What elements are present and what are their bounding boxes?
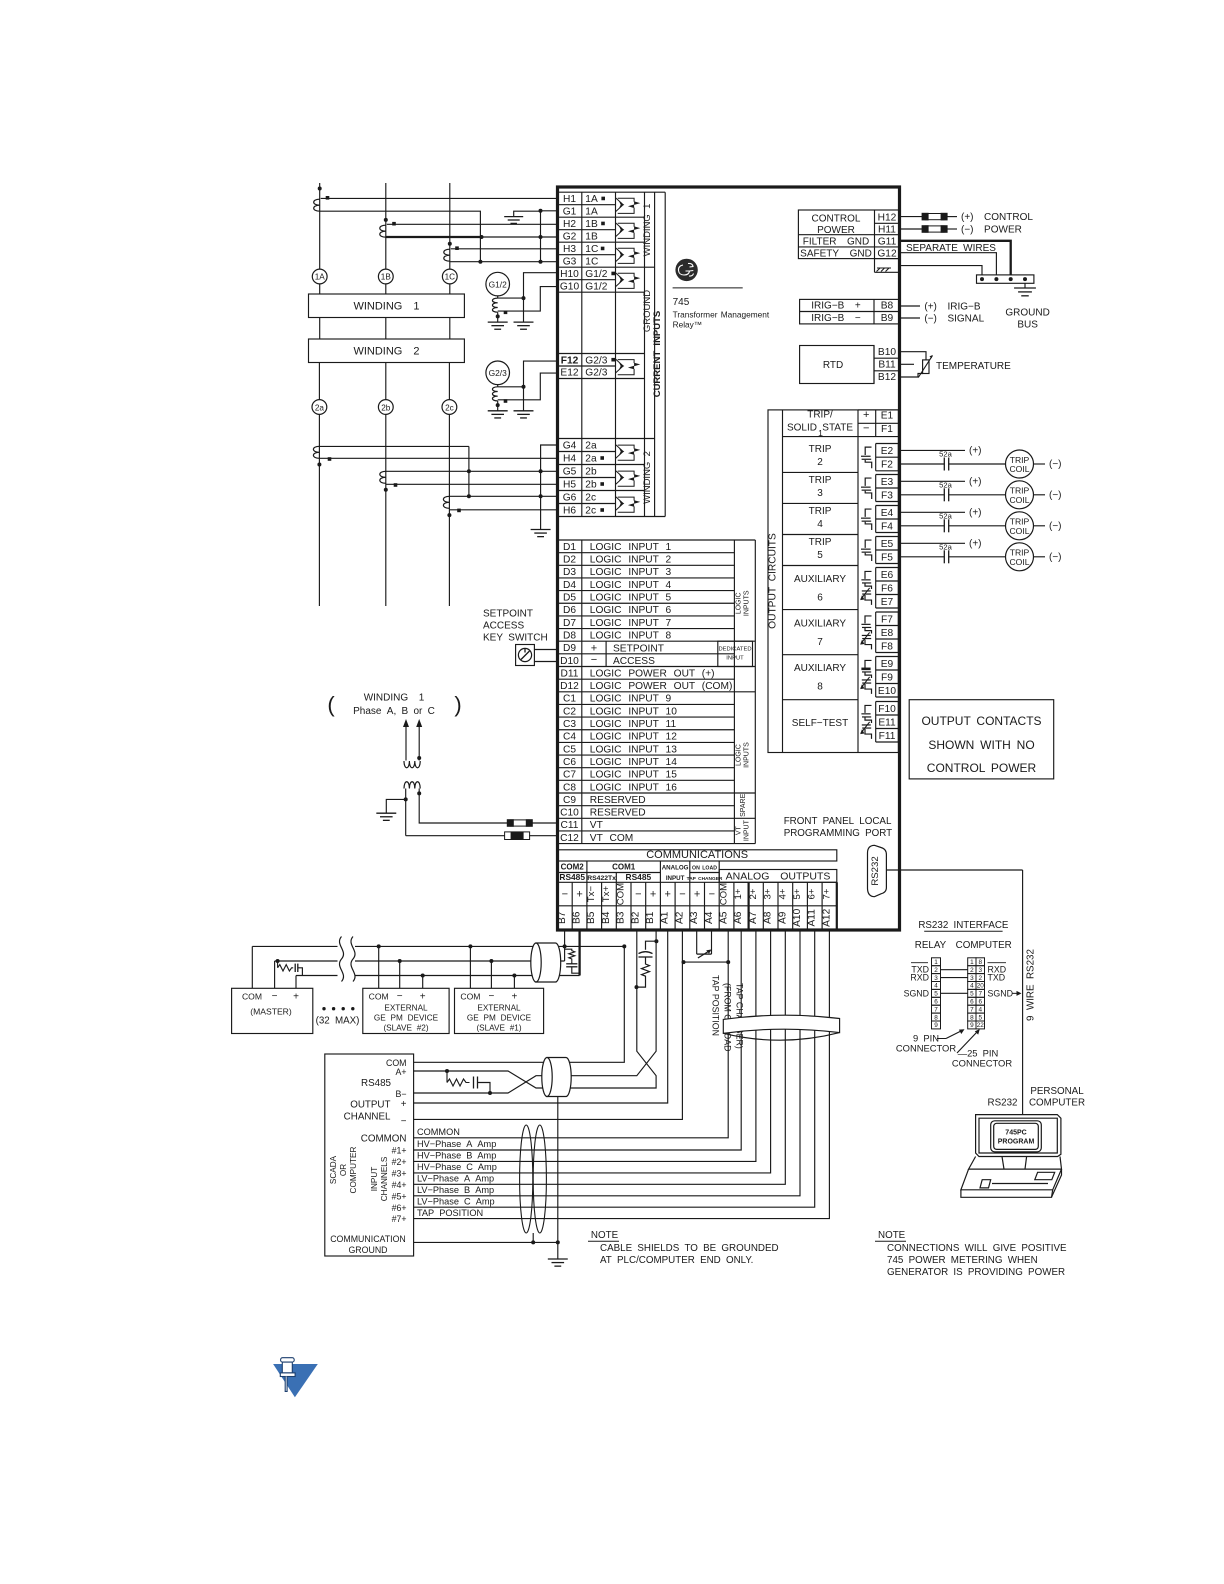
wire master minus drop — [274, 961, 276, 988]
wire CT 1A polarity to H1 — [321, 197, 558, 199]
svg-text:2: 2 — [934, 967, 938, 974]
svg-text:A1: A1 — [660, 911, 671, 924]
wire trip 5 positive — [898, 542, 965, 544]
svg-text:FRONT PANEL LOCAL: FRONT PANEL LOCAL — [784, 816, 892, 827]
irig-b table — [800, 299, 900, 324]
svg-text:7+: 7+ — [821, 888, 832, 899]
svg-text:NOTE: NOTE — [878, 1230, 906, 1241]
rs232 d-connector — [868, 845, 887, 896]
svg-text:CONTROL POWER: CONTROL POWER — [927, 761, 1037, 775]
svg-text:(FROM ONLOAD: (FROM ONLOAD — [723, 983, 733, 1051]
svg-text:+: + — [694, 889, 700, 901]
ground CT G1/2 shield drop — [523, 298, 525, 322]
svg-text:LOGIC INPUT 7: LOGIC INPUT 7 — [590, 618, 672, 629]
svg-text:5: 5 — [934, 991, 938, 998]
svg-text:G1/2: G1/2 — [585, 269, 607, 280]
svg-text:IRIG−B +: IRIG−B + — [811, 301, 861, 312]
svg-text:INPUTS: INPUTS — [744, 590, 751, 616]
ground CT G2/3 line to ground — [497, 401, 499, 411]
svg-text:C1: C1 — [563, 694, 576, 705]
svg-text:A3: A3 — [689, 911, 700, 924]
shield drain tall ellipse — [532, 1233, 534, 1242]
winding 1 box — [309, 294, 465, 318]
svg-text:G5: G5 — [563, 467, 577, 478]
phase bus 2b — [385, 414, 387, 606]
svg-text:6: 6 — [978, 999, 982, 1006]
svg-text:CHANNEL: CHANNEL — [344, 1112, 391, 1123]
jumper bus winding2 CT returns — [468, 446, 470, 496]
svg-text:(+) CONTROL: (+) CONTROL — [961, 212, 1033, 223]
svg-text:(−) POWER: (−) POWER — [961, 224, 1022, 235]
svg-text:#2+: #2+ — [392, 1157, 407, 1167]
svg-text:D6: D6 — [563, 605, 576, 616]
svg-text:D8: D8 — [563, 630, 576, 641]
svg-text:A10: A10 — [792, 908, 803, 926]
svg-text:(+) IRIG−B: (+) IRIG−B — [924, 301, 980, 312]
control power table — [798, 210, 899, 259]
svg-text:HV−Phase A Amp: HV−Phase A Amp — [417, 1139, 496, 1149]
output contacts note box — [909, 700, 1053, 779]
svg-text:WINDING 1: WINDING 1 — [364, 693, 425, 704]
svg-text:DEDICATED: DEDICATED — [718, 647, 751, 653]
svg-text:AUXILIARY: AUXILIARY — [794, 574, 846, 585]
wire CT 2a polarity to H4 — [319, 457, 557, 459]
wire slave2 minus tap — [399, 961, 401, 988]
svg-text:TAP CHANGER): TAP CHANGER) — [735, 983, 745, 1049]
vt primary lead right with arrow — [418, 723, 420, 761]
svg-text:INPUTS: INPUTS — [744, 742, 751, 768]
svg-text:TAP POSITION: TAP POSITION — [711, 975, 721, 1036]
ground symbol ground CT G1/2 left — [488, 321, 508, 323]
relay 745 main enclosure box — [558, 187, 900, 930]
svg-text:COMMUNICATION: COMMUNICATION — [330, 1234, 406, 1244]
svg-text:RS422Tx: RS422Tx — [587, 875, 616, 882]
svg-text:(−) SIGNAL: (−) SIGNAL — [924, 313, 984, 324]
label 745 Transformer Management Relay — [673, 287, 743, 289]
svg-text:AUXILIARY: AUXILIARY — [794, 663, 846, 674]
svg-text:4: 4 — [978, 1006, 982, 1013]
svg-text:1B: 1B — [585, 231, 598, 242]
wire CT 2c polarity to H6 — [449, 509, 557, 511]
svg-text:1: 1 — [970, 959, 974, 966]
svg-text:ACCESS: ACCESS — [483, 621, 524, 632]
svg-text:TRIP: TRIP — [809, 537, 832, 548]
phase bus 1B — [385, 183, 387, 269]
svg-text:SGND: SGND — [904, 988, 929, 998]
svg-text:E5: E5 — [881, 539, 894, 550]
svg-text:SPARE: SPARE — [740, 793, 747, 817]
svg-text:ACCESS: ACCESS — [613, 656, 655, 667]
ground CT G2/3 coil — [497, 385, 499, 387]
CT 1C — [448, 242, 452, 246]
svg-text:H4: H4 — [563, 454, 576, 465]
svg-text:C8: C8 — [563, 782, 576, 793]
svg-text:B1: B1 — [645, 911, 656, 924]
svg-text:F5: F5 — [881, 552, 893, 563]
svg-text:B12: B12 — [878, 372, 896, 383]
slave 2 device box — [363, 988, 449, 1033]
svg-text:(+): (+) — [969, 477, 982, 488]
svg-text:+: + — [401, 1099, 407, 1110]
svg-text:(SLAVE #2): (SLAVE #2) — [383, 1024, 428, 1033]
svg-text:F8: F8 — [881, 641, 893, 652]
svg-text:WINDING 1: WINDING 1 — [642, 204, 653, 257]
wire scada output channel plus — [414, 930, 668, 1103]
svg-text:D1: D1 — [563, 542, 576, 553]
svg-text:SETPOINT: SETPOINT — [613, 644, 664, 655]
svg-text:22: 22 — [977, 1022, 985, 1029]
svg-text:+: + — [863, 409, 869, 421]
svg-text:A4: A4 — [704, 911, 715, 924]
svg-text:LOGIC INPUT 10: LOGIC INPUT 10 — [590, 706, 677, 717]
wire scada com — [414, 946, 625, 1062]
svg-text:LOGIC INPUT 14: LOGIC INPUT 14 — [590, 757, 677, 768]
svg-text:52a: 52a — [939, 480, 952, 489]
svg-text:H2: H2 — [563, 219, 576, 230]
wire winding1 to winding2 1a — [319, 318, 321, 340]
svg-text:H10: H10 — [560, 269, 579, 280]
cable shield barrel relay end — [536, 943, 561, 982]
svg-text:745PC: 745PC — [1005, 1130, 1026, 1137]
svg-text:E12: E12 — [560, 368, 578, 379]
svg-text:3: 3 — [934, 975, 938, 982]
svg-text:Transformer Management: Transformer Management — [673, 310, 770, 320]
svg-text:LOGIC: LOGIC — [736, 592, 743, 614]
svg-text:LOGIC: LOGIC — [736, 744, 743, 766]
svg-text:3: 3 — [817, 488, 823, 499]
CT shorting-terminal symbol winding2 2a — [616, 445, 623, 459]
svg-text:TRIP/: TRIP/ — [807, 410, 833, 421]
svg-text:OUTPUT CONTACTS: OUTPUT CONTACTS — [921, 714, 1041, 728]
cable shield around input channel wires — [520, 1125, 533, 1233]
svg-text:RELAY: RELAY — [915, 940, 947, 951]
chassis ground glyph in cell — [877, 268, 892, 272]
svg-text:HV−Phase B Amp: HV−Phase B Amp — [417, 1151, 496, 1161]
svg-text:COM: COM — [242, 992, 262, 1002]
rs485 termination resistor scada — [447, 1071, 470, 1086]
svg-text:ON LOAD: ON LOAD — [692, 866, 717, 872]
svg-text:RS232: RS232 — [870, 856, 881, 885]
jumper bus G1 G2 G3 — [540, 211, 542, 262]
contact 52a — [943, 550, 945, 563]
svg-text:#6+: #6+ — [392, 1203, 407, 1213]
svg-text:20: 20 — [977, 983, 985, 990]
svg-text:2b: 2b — [381, 403, 391, 412]
svg-text:COMMON: COMMON — [417, 1127, 460, 1137]
winding 2 box — [309, 339, 465, 363]
svg-text:RESERVED: RESERVED — [590, 808, 646, 819]
svg-text:RTD: RTD — [823, 360, 843, 371]
svg-text:B10: B10 — [878, 347, 896, 358]
svg-text:+: + — [420, 992, 426, 1003]
svg-text:LOGIC INPUT 9: LOGIC INPUT 9 — [590, 694, 672, 705]
svg-text:1C: 1C — [445, 273, 456, 282]
svg-text:−: − — [401, 1116, 407, 1127]
svg-text:LOGIC INPUT 4: LOGIC INPUT 4 — [590, 580, 672, 591]
svg-text:A9: A9 — [777, 911, 788, 924]
svg-text:2c: 2c — [585, 506, 596, 517]
svg-text:GROUND: GROUND — [1005, 308, 1049, 319]
svg-text:(SLAVE #1): (SLAVE #1) — [476, 1024, 521, 1033]
svg-text:EXTERNAL: EXTERNAL — [477, 1004, 521, 1013]
svg-text:C5: C5 — [563, 744, 576, 755]
wire trip 2 positive — [898, 449, 965, 451]
svg-text:COMMUNICATIONS: COMMUNICATIONS — [646, 849, 748, 861]
wire rtd B12 — [900, 374, 923, 378]
svg-text:A12: A12 — [821, 908, 832, 926]
svg-text:5: 5 — [970, 991, 974, 998]
svg-text:HV−Phase C Amp: HV−Phase C Amp — [417, 1162, 497, 1172]
svg-text:G2/3: G2/3 — [585, 355, 607, 366]
svg-text:7: 7 — [934, 1006, 938, 1013]
svg-text:CONTROL: CONTROL — [812, 214, 861, 225]
svg-text:INPUT: INPUT — [726, 656, 744, 662]
svg-text:6: 6 — [934, 999, 938, 1006]
svg-text:8: 8 — [934, 1014, 938, 1021]
wire input channel 3 — [414, 930, 771, 1173]
svg-text:#3+: #3+ — [392, 1168, 407, 1178]
svg-text:H12: H12 — [878, 212, 897, 223]
svg-text:GE PM DEVICE: GE PM DEVICE — [467, 1014, 532, 1023]
svg-text:A7: A7 — [748, 911, 759, 924]
wire slave2 com tap — [378, 946, 380, 988]
slave 1 device box — [455, 988, 544, 1033]
svg-text:INPUT: INPUT — [744, 819, 751, 841]
svg-text:+: + — [591, 643, 597, 655]
svg-text:5: 5 — [978, 1014, 982, 1021]
svg-text:2: 2 — [817, 457, 823, 468]
svg-text:G12: G12 — [877, 249, 897, 260]
wire G1 row — [541, 210, 558, 212]
svg-text:E10: E10 — [878, 686, 896, 697]
svg-text:INPUT: INPUT — [666, 875, 685, 882]
svg-text:(−): (−) — [1049, 459, 1062, 470]
ground CT G2/3 shield drop — [523, 387, 525, 411]
svg-text:52a: 52a — [939, 450, 952, 459]
svg-text:LOGIC INPUT 11: LOGIC INPUT 11 — [590, 719, 677, 730]
svg-text:COMPUTER: COMPUTER — [349, 1146, 358, 1193]
svg-text:2c: 2c — [445, 403, 454, 412]
svg-text:F4: F4 — [881, 521, 893, 532]
wire CT 2c top G6 — [449, 495, 557, 497]
dedicated input box — [718, 641, 753, 666]
svg-text:COMPUTER: COMPUTER — [1029, 1098, 1085, 1109]
svg-text:8: 8 — [970, 1014, 974, 1021]
node 1C circle — [442, 269, 457, 284]
contact 52a — [943, 458, 945, 471]
wire com bus to B3 — [565, 945, 625, 947]
wire ground bus to earth — [1024, 283, 1026, 288]
svg-text:9: 9 — [934, 1022, 938, 1029]
svg-text:(: ( — [327, 692, 335, 717]
svg-text:1: 1 — [818, 428, 823, 438]
ground symbol vt — [376, 812, 396, 814]
svg-text:AUXILIARY: AUXILIARY — [794, 619, 846, 630]
svg-text:H1: H1 — [563, 194, 576, 205]
svg-text:(−): (−) — [1049, 552, 1062, 563]
svg-text:LOGIC INPUT 3: LOGIC INPUT 3 — [590, 567, 672, 578]
trip coil 5 — [1006, 543, 1034, 571]
svg-text:1B: 1B — [585, 219, 598, 230]
svg-text:COM: COM — [616, 883, 627, 905]
svg-text:E8: E8 — [881, 628, 894, 639]
CT shorting-terminal symbol ground G2/3 — [616, 359, 623, 373]
svg-text:WINDING 2: WINDING 2 — [353, 346, 419, 358]
CT 1A — [318, 187, 322, 191]
svg-text:LOGIC INPUT 2: LOGIC INPUT 2 — [590, 555, 672, 566]
ground symbol for ground bus — [1014, 287, 1036, 289]
svg-text:CHANNELS: CHANNELS — [380, 1156, 389, 1201]
svg-text:COMMON: COMMON — [361, 1133, 407, 1144]
wire slave1 plus tap — [513, 976, 515, 989]
svg-text:H6: H6 — [563, 506, 576, 517]
svg-text:3: 3 — [978, 967, 982, 974]
svg-text:D12: D12 — [560, 681, 579, 692]
vt primary coil — [404, 761, 420, 768]
svg-text:6: 6 — [817, 593, 823, 604]
key switch symbol — [516, 645, 535, 666]
svg-text:B2: B2 — [630, 911, 641, 924]
communications header — [558, 850, 837, 861]
svg-text:PROGRAM: PROGRAM — [998, 1139, 1035, 1146]
svg-text:SGND: SGND — [988, 988, 1013, 998]
svg-text:F3: F3 — [881, 490, 893, 501]
svg-text:F1: F1 — [881, 424, 893, 435]
svg-text:C10: C10 — [560, 808, 579, 819]
svg-text:2a: 2a — [585, 454, 597, 465]
svg-text:+: + — [511, 992, 517, 1003]
node 2c circle — [448, 363, 450, 400]
svg-text:LOGIC INPUT 8: LOGIC INPUT 8 — [590, 630, 672, 641]
svg-text:COM: COM — [369, 992, 389, 1002]
wire 1A to winding1 box — [319, 284, 321, 294]
svg-text:−: − — [863, 423, 869, 435]
computer 25-pin connector — [968, 958, 976, 966]
svg-text:4: 4 — [934, 983, 938, 990]
svg-text:C3: C3 — [563, 719, 576, 730]
setpoint access rows D9 D10 — [605, 641, 607, 666]
svg-text:(+): (+) — [969, 539, 982, 550]
wire CT 2b polarity to H5 — [386, 483, 558, 485]
wire winding1 to winding2 1c — [449, 318, 451, 340]
ground CT G2/3 circle — [486, 361, 510, 385]
svg-text:A11: A11 — [807, 909, 818, 927]
svg-text:H11: H11 — [878, 225, 896, 236]
master device box — [232, 988, 313, 1033]
svg-text:F11: F11 — [879, 731, 896, 742]
svg-text:52a: 52a — [939, 542, 952, 551]
svg-text:D5: D5 — [563, 593, 576, 604]
svg-text:CONNECTOR: CONNECTOR — [896, 1043, 956, 1054]
svg-text:9 WIRE RS232: 9 WIRE RS232 — [1026, 949, 1037, 1021]
svg-text:B5: B5 — [586, 911, 597, 924]
svg-text:(−): (−) — [1049, 490, 1062, 501]
wire scada common to A5 — [414, 930, 729, 1138]
svg-text:Phase A, B or C: Phase A, B or C — [353, 706, 435, 717]
wire trip 3 positive — [898, 480, 965, 482]
wire G2 row — [481, 236, 558, 238]
wire slave1 minus tap — [490, 961, 492, 988]
wire communication ground — [414, 1241, 558, 1243]
svg-text:F2: F2 — [881, 460, 893, 471]
wire CT 1B return thick — [386, 236, 481, 238]
wire input channel 6 — [414, 930, 815, 1207]
temperature sensor RTD element — [923, 360, 929, 374]
svg-text:1A: 1A — [585, 206, 598, 217]
svg-text:+: + — [650, 889, 656, 901]
svg-text:LOGIC INPUT 15: LOGIC INPUT 15 — [590, 770, 677, 781]
svg-text:LOGIC POWER OUT (COM): LOGIC POWER OUT (COM) — [590, 681, 733, 692]
fuse vt C12 — [505, 832, 530, 840]
svg-text:2b: 2b — [585, 467, 597, 478]
comm group cells — [558, 872, 661, 874]
svg-text:1C: 1C — [585, 256, 598, 267]
wire CT 1C polarity to H3 — [451, 248, 558, 250]
svg-text:Relay™: Relay™ — [673, 320, 703, 330]
CT shorting-terminal symbol winding1 1B — [616, 223, 623, 237]
svg-text:3+: 3+ — [763, 888, 774, 899]
svg-text:TXD: TXD — [988, 973, 1006, 983]
wire trip 4 positive — [898, 511, 965, 513]
ground CT G1/2 coil — [497, 296, 499, 298]
svg-text:LOGIC INPUT 6: LOGIC INPUT 6 — [590, 605, 672, 616]
svg-text:(+): (+) — [969, 508, 982, 519]
wire vt com to C12 — [406, 835, 505, 837]
svg-text:GROUND: GROUND — [642, 290, 653, 332]
svg-text:F9: F9 — [881, 672, 893, 683]
svg-text:PROGRAMMING PORT: PROGRAMMING PORT — [784, 828, 892, 839]
svg-text:D9: D9 — [563, 643, 576, 654]
phase bus 2c — [448, 414, 450, 606]
ground CT G1/2 line to ground — [497, 312, 499, 322]
node 1A circle — [312, 269, 327, 284]
svg-text:Tx−: Tx− — [586, 886, 597, 903]
CT shorting-terminal symbol winding1 1C — [616, 248, 623, 262]
wire rs232 pin5 — [941, 992, 968, 994]
analog outputs header cell — [719, 870, 837, 883]
svg-text:D3: D3 — [563, 567, 576, 578]
svg-text:COM: COM — [460, 992, 480, 1002]
svg-text:PERSONAL: PERSONAL — [1030, 1086, 1084, 1097]
svg-text:TAP CHANGER: TAP CHANGER — [687, 876, 723, 882]
svg-text:COIL: COIL — [1009, 495, 1029, 505]
wire safety ground G12 — [900, 253, 997, 275]
barrel drain to ground — [557, 1097, 559, 1243]
svg-text:COIL: COIL — [1009, 557, 1029, 567]
svg-text:EXTERNAL: EXTERNAL — [384, 1004, 428, 1013]
svg-text:LOGIC INPUT 12: LOGIC INPUT 12 — [590, 732, 677, 743]
wire rs485 minus bus — [275, 960, 565, 962]
svg-text:D4: D4 — [563, 580, 576, 591]
svg-text:COIL: COIL — [1009, 464, 1029, 474]
svg-text:E11: E11 — [878, 717, 896, 728]
svg-text:4+: 4+ — [777, 888, 788, 899]
svg-text:RS232: RS232 — [988, 1098, 1018, 1109]
svg-text:G11: G11 — [878, 237, 897, 248]
contact 52a — [943, 488, 945, 501]
ground symbol ground CT G2/3 right — [514, 410, 534, 412]
wire rs232 to computer — [886, 869, 1022, 871]
svg-text:Tx+: Tx+ — [601, 886, 612, 903]
CT shorting-terminal symbol winding2 2c — [616, 497, 623, 511]
node 2a circle — [318, 363, 320, 400]
svg-text:A6: A6 — [733, 911, 744, 924]
svg-text:7: 7 — [817, 637, 823, 648]
wire CT 2a top to jumper — [319, 445, 469, 447]
svg-text:SETPOINT: SETPOINT — [483, 609, 533, 620]
svg-text:RS485: RS485 — [626, 872, 652, 882]
phase bus 1A — [319, 183, 321, 269]
